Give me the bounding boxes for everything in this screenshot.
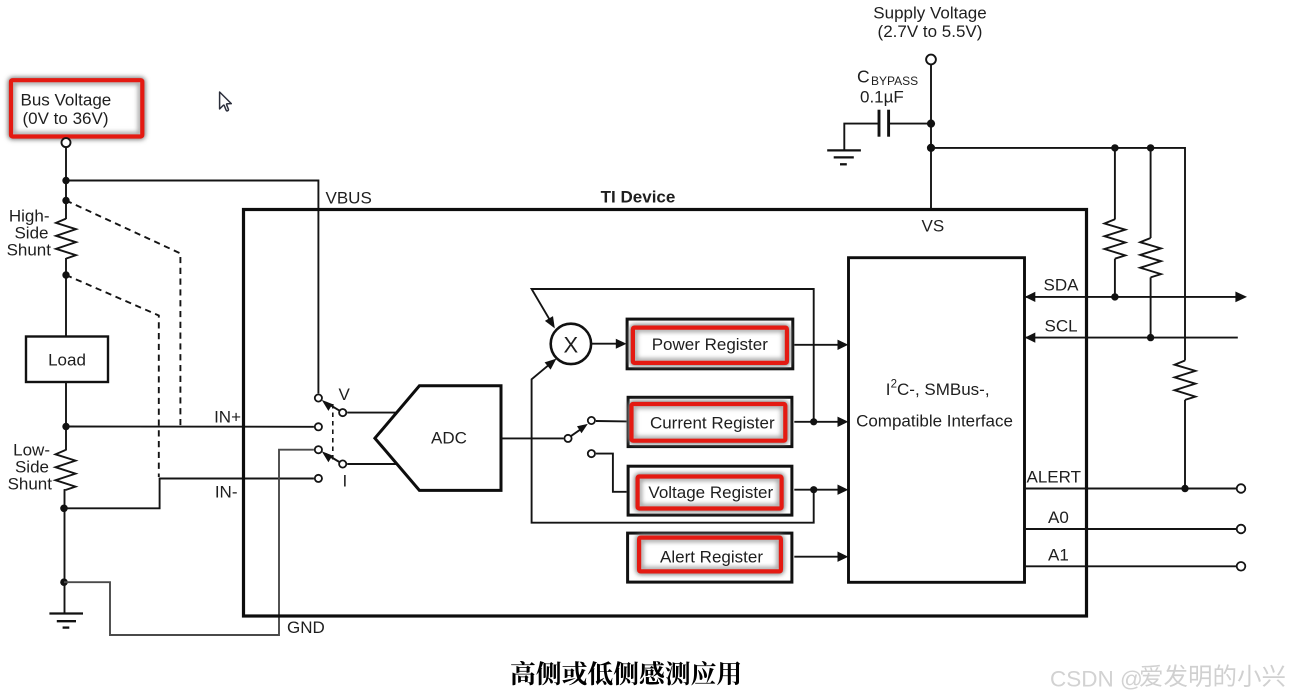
node junction B	[62, 197, 69, 204]
node GND net contact	[315, 446, 322, 453]
node current contact	[588, 417, 595, 424]
wire shunt to gnd junction	[65, 490, 66, 583]
label high-side shunt	[7, 207, 52, 260]
ground symbol supply	[827, 150, 861, 164]
node Bus Voltage annotation box	[11, 80, 142, 136]
resistor pullup SCL	[1140, 238, 1161, 277]
wire A0	[1025, 528, 1237, 530]
wire contact to current register	[596, 420, 627, 422]
node cap junction	[927, 120, 935, 128]
switch arm 2	[326, 454, 343, 464]
svg-text:ALERT: ALERT	[1027, 468, 1082, 487]
node junction IN+	[62, 423, 69, 430]
svg-text:I: I	[343, 472, 348, 491]
resistor pullup ALERT	[1175, 361, 1196, 400]
svg-text:VBUS: VBUS	[326, 189, 372, 208]
node junction D	[60, 505, 68, 513]
wire feedback voltage to X	[532, 365, 814, 523]
node switch pole 1	[339, 409, 346, 416]
svg-text:CSDN @: CSDN @	[1050, 667, 1143, 692]
svg-text:SDA: SDA	[1044, 276, 1080, 295]
wire pullup1 lead	[1114, 148, 1116, 220]
svg-text:GND: GND	[287, 618, 325, 637]
svg-text:Supply Voltage: Supply Voltage	[873, 4, 986, 23]
svg-text:Load: Load	[48, 351, 86, 370]
svg-text:TI Device: TI Device	[601, 188, 676, 207]
svg-text:IN-: IN-	[215, 483, 238, 502]
node junction C	[62, 271, 69, 278]
svg-text:A1: A1	[1048, 546, 1069, 565]
register Current	[628, 397, 792, 446]
svg-text:C: C	[857, 67, 870, 87]
node pullup1 junction	[1111, 144, 1118, 151]
wire ALERT	[1025, 488, 1237, 490]
node voltage junction	[810, 486, 817, 493]
wire ADC output	[501, 437, 564, 439]
svg-text:BYPASS: BYPASS	[871, 74, 918, 88]
svg-text:ADC: ADC	[431, 429, 467, 448]
ground symbol left	[49, 614, 83, 628]
svg-text:(0V to 36V): (0V to 36V)	[23, 109, 109, 128]
wire dashed high-side to IN+	[66, 201, 180, 427]
wire pole2 to ADC	[347, 463, 397, 465]
multiplier X	[551, 324, 591, 364]
switch arm 1	[326, 403, 343, 413]
wire bus terminal to junction	[65, 148, 67, 181]
svg-text:0.1µF: 0.1µF	[860, 88, 904, 107]
wire VBUS: junction to chip V switch	[66, 181, 318, 394]
svg-text:Shunt: Shunt	[7, 241, 52, 260]
node SDA junction	[1111, 293, 1118, 300]
register Voltage	[628, 466, 792, 515]
node rail junction	[927, 144, 935, 152]
op-amp ADC block	[375, 386, 501, 491]
svg-text:Compatible Interface: Compatible Interface	[856, 412, 1013, 431]
svg-text:Alert Register: Alert Register	[660, 547, 763, 566]
svg-text:A0: A0	[1048, 508, 1069, 527]
svg-text:C-, SMBus-,: C-, SMBus-,	[897, 380, 990, 399]
interface block U1	[849, 258, 1025, 583]
node IN- pin	[315, 475, 322, 482]
node ALERT terminal	[1237, 484, 1246, 493]
wire supply to VS	[930, 64, 932, 208]
node output pole	[564, 435, 571, 442]
node current junction	[810, 418, 817, 425]
wire A1	[1025, 565, 1237, 567]
node supply terminal	[926, 55, 936, 65]
wire load to IN+ junction	[65, 382, 67, 451]
wire feedback current to X	[532, 289, 814, 421]
node IN+ pin	[315, 423, 322, 430]
register Power	[627, 319, 793, 369]
node A1 terminal	[1237, 562, 1246, 571]
svg-text:V: V	[339, 385, 351, 404]
node bus input terminal	[62, 138, 71, 147]
label caption (Chinese)	[511, 661, 740, 685]
wire pullup3 to ALERT	[1184, 400, 1186, 489]
wire junction to high-side shunt	[65, 181, 67, 220]
capacitor C_BYPASS	[879, 110, 889, 137]
svg-text:Power Register: Power Register	[652, 335, 769, 354]
wire IN+	[66, 426, 314, 428]
resistor pullup SDA	[1105, 219, 1126, 258]
mouse cursor	[220, 92, 232, 111]
wire GND net route	[64, 450, 314, 635]
node switch pole 2	[339, 460, 346, 467]
load box	[26, 337, 108, 383]
register Alert	[628, 533, 792, 582]
wire pullup1 to SDA	[1114, 259, 1116, 297]
wire supply rail to pullups	[931, 148, 1185, 361]
node A0 terminal	[1237, 525, 1246, 534]
wire shunt to load	[65, 258, 67, 337]
node pullup2 junction	[1147, 144, 1154, 151]
svg-text:VS: VS	[922, 217, 945, 236]
node voltage contact	[588, 450, 595, 457]
wire junction to ground	[64, 582, 66, 614]
label low-side shunt	[8, 441, 53, 494]
wire X to power register with arrow	[591, 343, 617, 345]
wire dashed high-side to IN-	[66, 275, 159, 477]
svg-text:Voltage Register: Voltage Register	[648, 483, 773, 502]
svg-text:Current Register: Current Register	[650, 413, 775, 432]
wire pole1 to ADC	[347, 412, 396, 414]
wire power register to interface	[794, 344, 838, 346]
node SCL junction	[1147, 334, 1154, 341]
node junction A	[62, 177, 69, 184]
resistor low-side shunt	[56, 450, 76, 490]
wire current register to interface	[794, 421, 838, 423]
wire pullup2 lead	[1150, 148, 1152, 238]
svg-text:(2.7V to 5.5V): (2.7V to 5.5V)	[878, 22, 983, 41]
watermark CSDN	[1050, 664, 1285, 691]
svg-text:X: X	[564, 332, 579, 357]
wire SDA	[1025, 296, 1237, 298]
wire cap left to ground	[844, 124, 878, 150]
wire SCL	[1025, 337, 1238, 339]
node ALERT junction	[1181, 485, 1188, 492]
node V switch contact	[315, 394, 322, 401]
svg-text:IN+: IN+	[214, 408, 241, 427]
resistor high-side shunt	[56, 219, 76, 259]
node junction E	[60, 578, 68, 586]
svg-text:Shunt: Shunt	[8, 475, 53, 494]
wire contact to voltage register	[596, 454, 627, 492]
svg-text:Bus Voltage: Bus Voltage	[21, 91, 112, 110]
wire alert register to interface	[794, 556, 838, 558]
wire voltage register to interface	[794, 489, 838, 491]
switch arm 3	[571, 428, 583, 436]
svg-text:SCL: SCL	[1045, 317, 1078, 336]
wire switch gang dashed	[332, 404, 334, 461]
TI Device box	[244, 210, 1087, 617]
wire pullup2 to SCL	[1150, 277, 1152, 337]
wire IN-	[64, 479, 314, 509]
wire cap right to junction	[890, 123, 929, 125]
